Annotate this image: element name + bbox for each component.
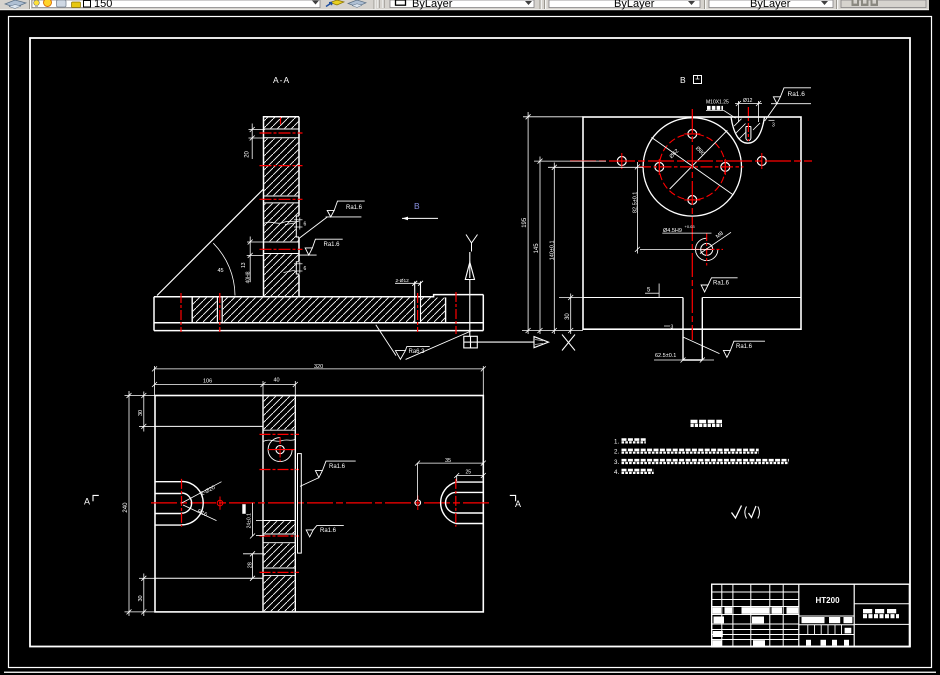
internal step lines left	[155, 426, 263, 578]
svg-text:140±0.1: 140±0.1	[549, 240, 555, 260]
left dim 30 bottom	[139, 574, 155, 617]
svg-text:A-A: A-A	[273, 75, 290, 85]
padlock icon	[72, 2, 81, 8]
svg-text:Ra1.6: Ra1.6	[329, 464, 346, 470]
svg-text:M10X1.25: M10X1.25	[706, 100, 729, 106]
hole callout 04.5H9	[662, 232, 711, 234]
dim 20 upper left	[249, 124, 266, 160]
bolt holes	[655, 130, 730, 205]
dim stack lower left of column	[247, 237, 266, 283]
svg-text:45: 45	[218, 268, 224, 274]
left dim 30 top	[139, 392, 155, 432]
base slot end wall left	[191, 298, 193, 323]
red horizontal main centerline	[570, 160, 812, 162]
red notch hole centerline	[747, 107, 749, 141]
red centerline top tick	[280, 117, 282, 124]
right slot red centerline	[455, 479, 457, 527]
column band edges	[263, 396, 295, 612]
bolt circle red	[659, 134, 725, 200]
svg-text:40H8: 40H8	[246, 271, 252, 283]
base slot end wall right	[445, 298, 447, 323]
part name jia-ju-ti	[863, 609, 899, 613]
base hole left walls	[216, 298, 218, 323]
surface Ra1.6 top right	[765, 88, 811, 121]
scallop hatch ticks	[734, 119, 760, 139]
relief groove upper	[296, 216, 300, 238]
left slot leaders	[182, 482, 222, 503]
svg-text:3: 3	[772, 122, 775, 128]
left grid horizontals	[712, 592, 799, 640]
header blob row	[713, 607, 799, 614]
svg-text:30: 30	[138, 595, 144, 601]
gusset diagonal	[157, 189, 264, 296]
layer previous icon	[348, 0, 366, 8]
outer holes	[617, 157, 766, 166]
color combo	[390, 0, 534, 8]
base flange outline	[154, 295, 483, 331]
right slot	[441, 482, 484, 523]
angle dim 45 arc	[213, 243, 235, 295]
left extension lines	[522, 117, 643, 331]
base hatch	[193, 298, 217, 323]
svg-text:2.: 2.	[614, 449, 619, 456]
rib edge rectangle	[298, 454, 302, 553]
svg-text:28: 28	[247, 562, 253, 568]
boss circle	[268, 438, 292, 462]
groove dim 6 lower	[284, 262, 303, 274]
svg-text:30: 30	[138, 410, 144, 416]
thread callout leader	[700, 232, 731, 253]
threaded hole below	[701, 243, 713, 255]
middle cell lines	[799, 616, 854, 635]
svg-text:195: 195	[522, 217, 528, 228]
svg-text:30: 30	[565, 313, 571, 320]
red centerlines in base	[181, 292, 456, 334]
svg-text:ByLayer: ByLayer	[750, 0, 791, 10]
dim 5 step	[645, 284, 659, 298]
svg-text:Ra1.6: Ra1.6	[324, 242, 341, 248]
svg-text:Ra6.3: Ra6.3	[409, 349, 426, 355]
surface Ra1.6 band lower	[306, 526, 344, 537]
middle bars	[802, 617, 825, 623]
svg-text:82.5±0.1: 82.5±0.1	[633, 192, 639, 213]
notch hole	[746, 127, 751, 141]
break spline	[263, 439, 295, 441]
svg-text:106: 106	[203, 379, 212, 385]
svg-text:62.5±0.1: 62.5±0.1	[655, 353, 676, 359]
column outline	[264, 117, 300, 297]
band left small dims	[243, 503, 265, 581]
plate outline	[583, 117, 801, 329]
toolbar background strip	[0, 0, 929, 10]
dim 82.5 vertical	[635, 162, 712, 254]
left grid verticals	[722, 584, 783, 647]
surface Ra1.6 at step	[701, 278, 738, 292]
column internal lines	[264, 129, 300, 254]
svg-text:24±0.1: 24±0.1	[247, 513, 253, 528]
red band centerlines	[260, 434, 300, 572]
svg-text:Ra1.6: Ra1.6	[736, 344, 753, 350]
red vertical centerline	[691, 109, 693, 340]
svg-text:145: 145	[534, 243, 540, 254]
dim 62.5 bottom	[654, 358, 714, 363]
main horizontal centerline	[151, 502, 489, 504]
red centerlines on column	[260, 133, 303, 249]
make-layer-current icon	[326, 0, 344, 7]
dim 195	[526, 112, 531, 334]
plot style combo (disabled)	[841, 0, 926, 8]
PLAN VIEW	[84, 364, 521, 616]
surface Ra1.6 at tab	[723, 341, 765, 357]
heading ji-shu-yao-qiu	[691, 420, 723, 423]
svg-text:ByLayer: ByLayer	[614, 0, 655, 10]
layer combo field	[32, 0, 320, 8]
svg-text:B: B	[414, 201, 420, 211]
white hole circle right	[415, 500, 421, 506]
svg-text:Ra1.6: Ra1.6	[713, 281, 730, 287]
right cells lines	[854, 603, 909, 605]
diameter diagonal 1	[652, 137, 734, 195]
groove dim 6 upper	[285, 218, 303, 230]
bottom tab	[683, 298, 702, 361]
svg-text:Ø12: Ø12	[743, 98, 753, 104]
svg-text:B: B	[680, 75, 686, 85]
panel edge + grips	[373, 0, 375, 9]
red hole dot left	[217, 500, 223, 506]
diameter diagonal 2	[670, 130, 728, 189]
layer combo arrow	[312, 1, 319, 5]
svg-text:ByLayer: ByLayer	[412, 0, 453, 10]
dim 145	[538, 157, 543, 335]
red hole cross ticks	[622, 134, 762, 200]
dim 140	[552, 163, 557, 335]
surface symbol Ra6.3 flag below base	[376, 325, 471, 360]
separator	[29, 0, 31, 9]
plate outline	[155, 396, 483, 612]
TITLE BLOCK	[712, 584, 910, 647]
hole circle	[276, 446, 284, 454]
svg-text:Ra1.6: Ra1.6	[788, 91, 806, 98]
sun icon	[44, 0, 52, 7]
surface Ra1.6 band upper	[300, 461, 356, 486]
inner step line	[583, 297, 801, 299]
dim 30	[568, 294, 573, 335]
TECH REQUIREMENTS	[614, 422, 789, 519]
svg-text:240: 240	[123, 502, 129, 513]
relief groove lower	[296, 261, 300, 274]
lineweight combo	[709, 0, 833, 8]
surface symbol Ra1.6 upper	[300, 201, 365, 238]
VIEW B	[522, 75, 812, 363]
bottom row blobs	[806, 640, 849, 646]
svg-text:40: 40	[274, 378, 280, 384]
svg-text:6: 6	[304, 222, 307, 228]
svg-text:320: 320	[314, 364, 323, 370]
band hatch	[264, 396, 295, 429]
svg-text:A: A	[84, 497, 90, 507]
left slot red centerline	[181, 479, 183, 527]
block outline	[712, 584, 910, 647]
svg-text:1.: 1.	[614, 438, 619, 445]
left dim 240	[125, 391, 156, 616]
major verticals	[798, 584, 800, 647]
break line in column	[264, 221, 300, 224]
svg-text:3.: 3.	[614, 459, 619, 466]
svg-text:HT200: HT200	[816, 596, 841, 605]
red cross threaded hole	[706, 233, 708, 266]
sheji row blobs	[714, 617, 725, 624]
freeze icon	[57, 0, 67, 7]
big circle	[643, 118, 741, 216]
svg-text:3: 3	[671, 324, 674, 330]
svg-text:4.: 4.	[614, 469, 619, 476]
SECTION VIEW A-A	[154, 75, 575, 359]
finish marks check (check)	[732, 506, 760, 519]
color swatch	[84, 1, 91, 8]
lower-left blobs	[713, 631, 723, 637]
svg-text:35: 35	[445, 458, 451, 464]
dim 35 right slot	[415, 461, 486, 500]
red cross hole	[279, 437, 281, 462]
svg-text:150: 150	[94, 0, 112, 10]
dim 012 notch	[735, 101, 762, 122]
dim 25 slot depth	[454, 473, 486, 481]
UCS icon	[464, 252, 549, 348]
left slot	[155, 481, 203, 525]
tab chamfer + leader	[683, 337, 720, 354]
svg-text:25: 25	[466, 470, 472, 476]
top dim 320	[152, 366, 486, 396]
svg-text:6: 6	[304, 266, 307, 272]
column hatch	[264, 117, 298, 128]
base hole right walls + extension	[414, 281, 416, 322]
red bolt-center horizontal	[639, 166, 744, 168]
svg-text:Ø4.5H9: Ø4.5H9	[663, 228, 682, 234]
layer manager icon	[5, 0, 26, 9]
surface symbol Ra1.6 lower	[299, 239, 343, 255]
linetype combo	[549, 0, 700, 8]
small cells row	[808, 625, 842, 635]
dim 106 + 40	[152, 381, 298, 396]
svg-text:Ra1.6: Ra1.6	[320, 528, 337, 534]
band internal lines	[263, 430, 295, 575]
TOOLBAR	[0, 0, 940, 10]
svg-text:+0.03: +0.03	[685, 224, 696, 229]
bulb icon	[34, 0, 40, 6]
svg-text:Ra1.6: Ra1.6	[346, 205, 363, 211]
svg-text:13: 13	[241, 262, 247, 268]
svg-text:20: 20	[245, 150, 251, 157]
command area top line	[4, 672, 936, 673]
